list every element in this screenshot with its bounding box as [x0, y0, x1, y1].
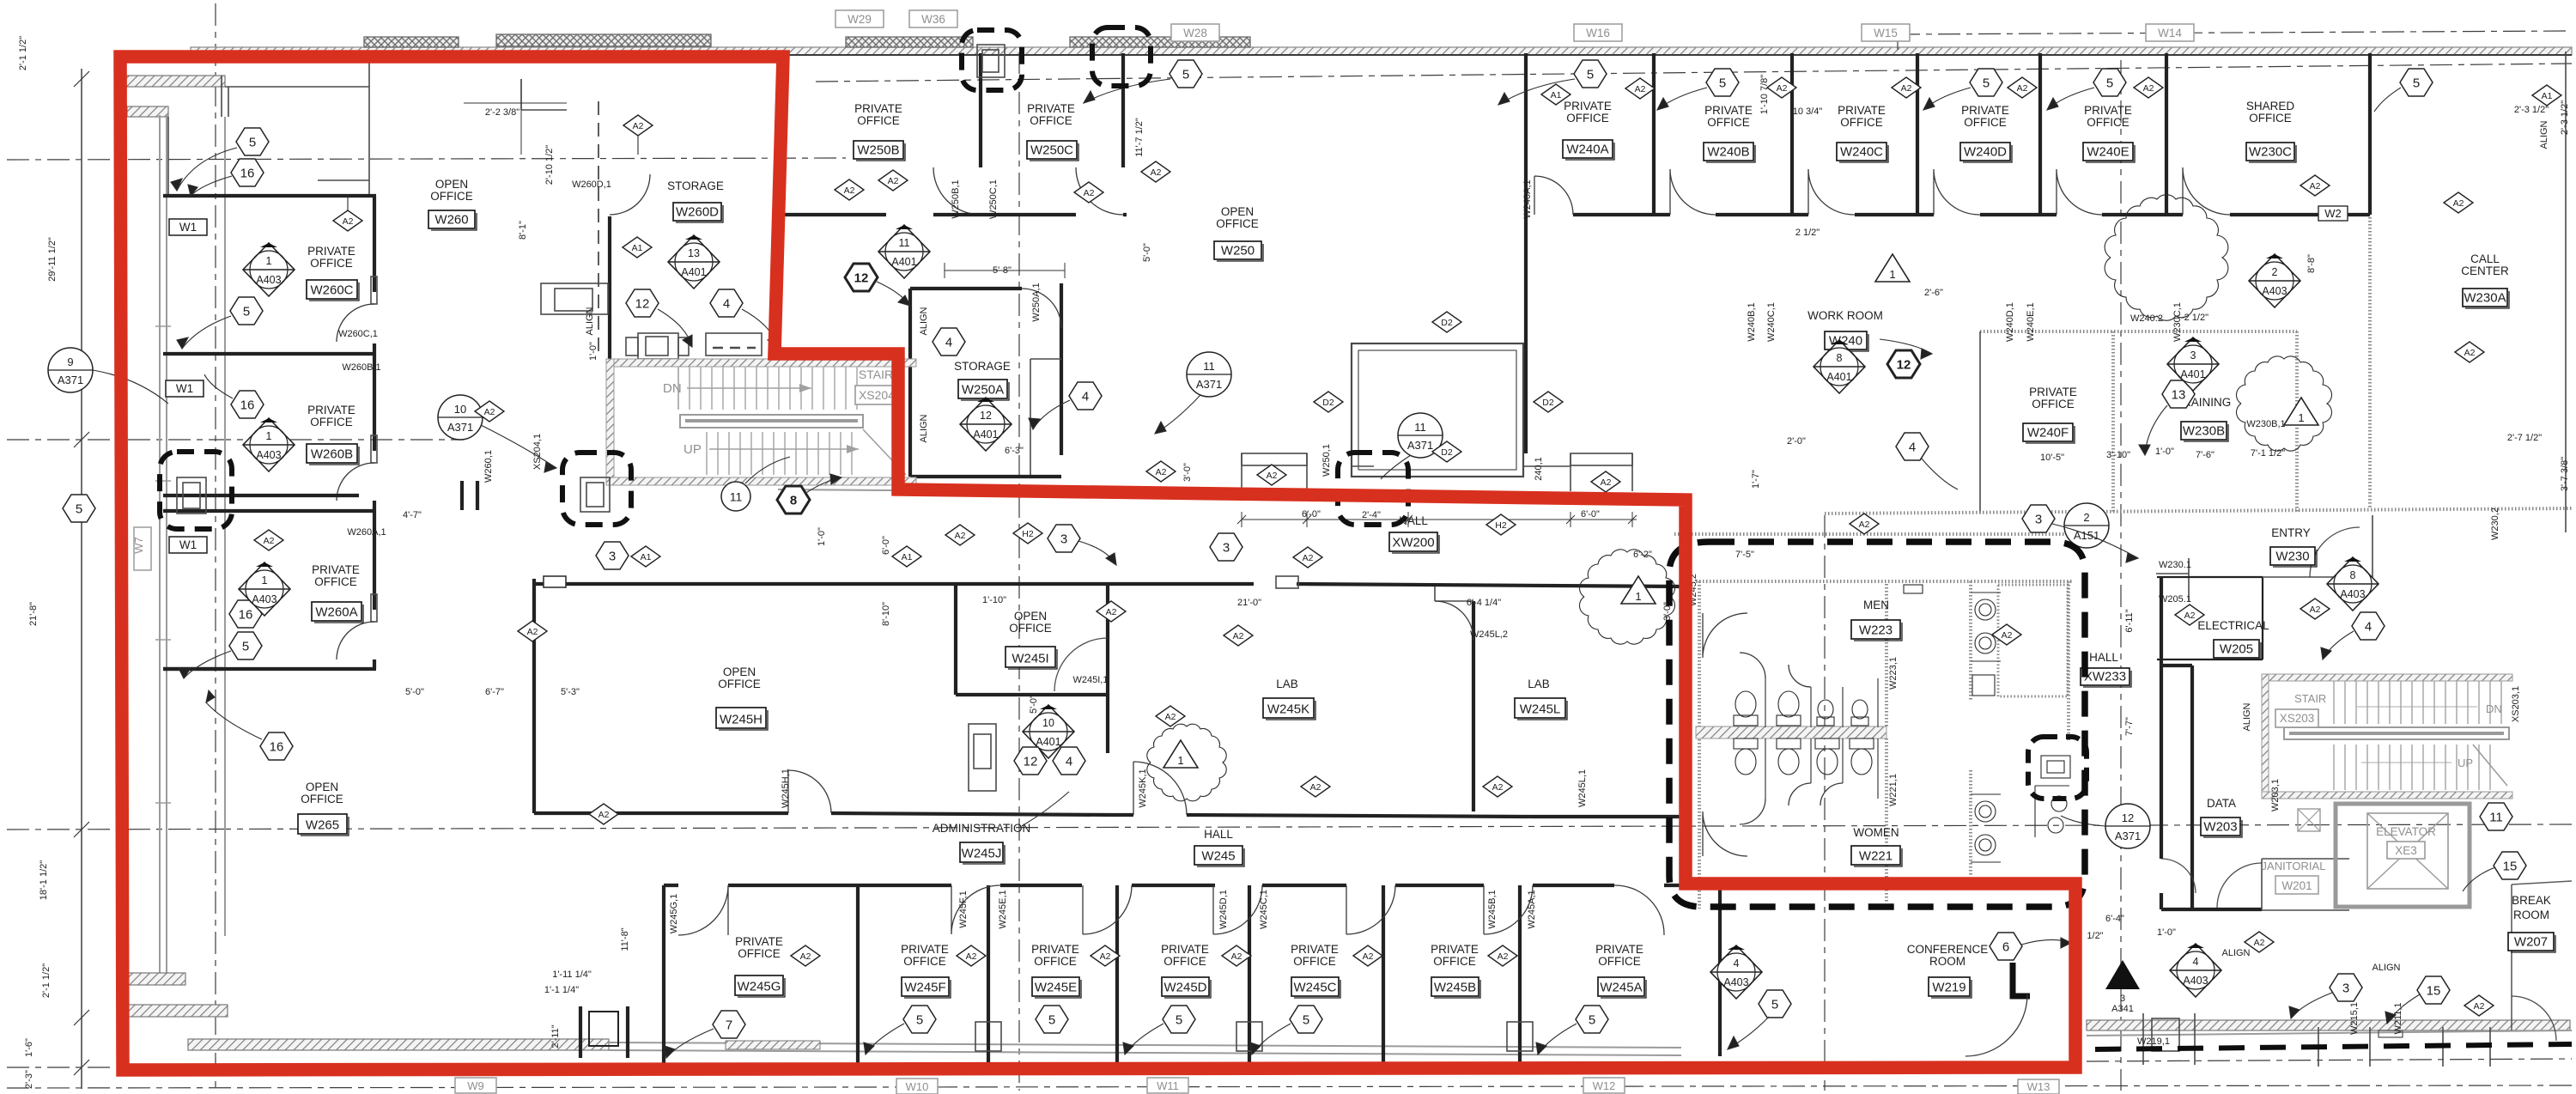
svg-text:W250,1: W250,1	[1321, 444, 1332, 477]
data room west wall	[2161, 666, 2262, 909]
svg-text:W16: W16	[1586, 27, 1610, 40]
leader from hex5 b	[182, 316, 231, 349]
bottom-left stepped wall 3	[188, 1039, 609, 1050]
svg-text:A401: A401	[1036, 736, 1060, 748]
svg-text:PRIVATE: PRIVATE	[312, 563, 360, 576]
svg-text:11'-7 1/2": 11'-7 1/2"	[1134, 118, 1145, 157]
door arcs W240 row	[1534, 176, 1573, 215]
leader hex3 bottom right	[2291, 993, 2332, 1018]
W240A/B divider	[1652, 53, 1656, 215]
hexagon callout 3	[1048, 525, 1080, 552]
svg-text:2'-3": 2'-3"	[24, 1070, 34, 1089]
svg-text:W250B: W250B	[857, 143, 899, 158]
svg-text:OFFICE: OFFICE	[903, 955, 946, 968]
grid box W14	[2146, 24, 2194, 41]
svg-text:W240E,1: W240E,1	[2026, 302, 2036, 341]
svg-text:A2: A2	[1901, 83, 1912, 94]
svg-text:A2: A2	[484, 407, 495, 417]
filled triangle 3/A341	[2105, 960, 2140, 1014]
svg-text:PRIVATE: PRIVATE	[2029, 386, 2077, 398]
hexagon callout 5	[1170, 60, 1202, 88]
svg-text:W250C: W250C	[1030, 143, 1073, 158]
bottom right door jambs	[2143, 1013, 2490, 1067]
svg-text:A2: A2	[955, 531, 966, 541]
svg-text:OFFICE: OFFICE	[738, 947, 781, 960]
tag diamond A1	[2532, 85, 2561, 106]
svg-text:W245K: W245K	[1267, 702, 1309, 717]
svg-text:W245G: W245G	[738, 980, 781, 994]
left margin dimension line	[81, 69, 82, 1089]
tag diamond A2	[333, 210, 362, 231]
svg-text:7'-5": 7'-5"	[1735, 550, 1754, 560]
door inside stair dashed box	[580, 477, 610, 512]
svg-text:A2: A2	[1267, 471, 1278, 481]
bottom-left stepped wall 2	[127, 1005, 228, 1017]
wall shaft to W240.1	[1523, 465, 1571, 467]
leader hex4 workroom	[1921, 458, 1958, 489]
room label W245F	[901, 943, 951, 998]
grid line bottom margin dashes	[7, 1085, 2572, 1088]
svg-text:W36: W36	[921, 13, 945, 26]
svg-text:16: 16	[270, 740, 284, 755]
womens counter	[1971, 794, 2001, 862]
svg-text:A2: A2	[1635, 84, 1646, 94]
leader hex5 W240E	[2047, 88, 2094, 110]
svg-text:SHARED: SHARED	[2246, 100, 2295, 112]
door arc W260D.1	[610, 174, 650, 215]
dashed box left	[160, 452, 232, 529]
svg-text:OFFICE: OFFICE	[1964, 116, 2007, 129]
room label W223	[1851, 599, 1902, 641]
leader hex6 conference	[2021, 939, 2071, 945]
svg-text:OPEN: OPEN	[306, 781, 338, 793]
svg-text:W7: W7	[132, 537, 145, 554]
svg-text:W203: W203	[2203, 820, 2237, 835]
drinking fountain rects at notch	[2041, 756, 2070, 778]
right margin dimension line	[2565, 52, 2567, 532]
svg-text:PRIVATE: PRIVATE	[1027, 102, 1075, 115]
copier rect 2 near stair	[626, 333, 689, 359]
svg-text:OFFICE: OFFICE	[310, 257, 353, 270]
W240B/C divider	[1790, 53, 1794, 215]
svg-text:5'-0": 5'-0"	[1142, 243, 1152, 262]
svg-text:4: 4	[1734, 957, 1740, 969]
svg-text:11'-8": 11'-8"	[620, 927, 630, 951]
tag diamond A2	[1353, 945, 1382, 966]
lab W245K door arc	[1133, 762, 1187, 815]
svg-text:W250B,1: W250B,1	[951, 179, 961, 218]
grid box W9	[455, 1078, 496, 1093]
circle callout 11/	[721, 482, 750, 511]
admin W245J west wall	[954, 584, 957, 695]
svg-text:PRIVATE: PRIVATE	[307, 404, 355, 416]
dashed box corridor W250.1	[1338, 453, 1408, 525]
hexagon callout 5	[1163, 1006, 1195, 1033]
svg-text:12: 12	[1024, 755, 1038, 769]
svg-text:W245H,1: W245H,1	[781, 769, 791, 808]
leader hex15 a	[2463, 867, 2495, 891]
svg-text:ELECTRICAL: ELECTRICAL	[2197, 619, 2269, 632]
leader hex7	[666, 1029, 714, 1058]
svg-text:4'-7": 4'-7"	[403, 510, 422, 520]
admin / W245I divider	[956, 693, 1108, 696]
svg-text:W215,1: W215,1	[2349, 1002, 2360, 1035]
svg-text:UP: UP	[2458, 757, 2473, 769]
room label W245G	[735, 935, 785, 997]
grid line horizontal top	[7, 158, 846, 160]
hexagon callout 5	[2093, 69, 2126, 96]
womens basin 1	[1975, 801, 1996, 822]
svg-text:D2: D2	[1542, 398, 1554, 408]
svg-text:A2: A2	[2002, 630, 2013, 641]
svg-text:PRIVATE: PRIVATE	[1161, 943, 1209, 956]
womens entry door arc	[1703, 811, 1747, 856]
tag diamond A1	[1541, 84, 1571, 105]
tag diamond A2	[1625, 78, 1655, 99]
leader hex5 W240A	[1498, 79, 1575, 105]
circle callout 11/A371	[1187, 352, 1231, 397]
leader circle 11/A371	[1155, 395, 1200, 434]
svg-text:5'-0": 5'-0"	[1029, 695, 1039, 714]
svg-text:W260,1: W260,1	[483, 450, 494, 483]
svg-text:W240A,1: W240A,1	[1522, 179, 1533, 218]
svg-text:W205.1: W205.1	[2159, 594, 2191, 605]
room label W245J	[933, 822, 1031, 864]
svg-text:ADMINISTRATION: ADMINISTRATION	[933, 822, 1031, 835]
svg-text:A403: A403	[2340, 588, 2365, 600]
left office column right wall	[373, 196, 376, 669]
toilet W2	[1777, 738, 1801, 775]
urinal M1	[1817, 700, 1834, 726]
mens shower room	[1998, 585, 2068, 696]
entry north wall	[2263, 515, 2372, 580]
room label W240C	[1837, 104, 1888, 162]
door mullion marks bottom row	[975, 1022, 1533, 1051]
svg-text:4: 4	[2365, 620, 2372, 635]
mens lav counter	[1971, 593, 2001, 661]
svg-text:STORAGE: STORAGE	[954, 360, 1011, 373]
svg-text:OFFICE: OFFICE	[2087, 116, 2129, 129]
W245G left wall	[662, 885, 665, 1065]
svg-text:A403: A403	[2183, 975, 2208, 987]
W250C right wall	[1121, 53, 1125, 167]
svg-text:2'-0": 2'-0"	[1787, 436, 1806, 447]
room label W240A	[1563, 100, 1614, 160]
svg-text:HALL: HALL	[1204, 828, 1233, 841]
svg-text:3'-0": 3'-0"	[1182, 463, 1193, 482]
svg-text:1/2": 1/2"	[2087, 931, 2103, 941]
svg-text:W219,1: W219,1	[2137, 1036, 2170, 1047]
grid line vertical C	[1824, 515, 1826, 1091]
hexagon callout 13	[2162, 380, 2195, 408]
restroom outer wall right	[2067, 581, 2070, 740]
svg-text:4: 4	[1909, 441, 1916, 455]
tag diamond D2	[1432, 441, 1461, 462]
svg-text:5: 5	[1587, 68, 1594, 82]
svg-text:W245J: W245J	[962, 847, 1002, 861]
svg-text:1: 1	[1635, 590, 1641, 603]
svg-text:11: 11	[1414, 421, 1426, 434]
svg-text:A2: A2	[2464, 348, 2476, 358]
svg-text:W2: W2	[2324, 207, 2342, 220]
hexagon callout 12	[1887, 350, 1920, 378]
svg-text:A2: A2	[1492, 782, 1504, 793]
svg-text:BREAK: BREAK	[2512, 894, 2551, 907]
hexagon callout 5	[1574, 60, 1607, 88]
svg-text:MEN: MEN	[1863, 599, 1889, 611]
door recess W250.1	[1242, 453, 1307, 489]
wall left of W265 bottom portion	[163, 494, 359, 497]
heavy dashed line bottom right	[2095, 1044, 2572, 1049]
XS204 box	[855, 386, 898, 404]
grid line vertical B	[1018, 52, 1020, 1091]
room label XW200	[1389, 514, 1439, 553]
svg-text:A341: A341	[2111, 1004, 2134, 1014]
mens basin 2	[1975, 633, 1996, 653]
W240C/D divider	[1916, 53, 1919, 215]
svg-text:D2: D2	[1441, 318, 1453, 328]
svg-text:W240C: W240C	[1840, 145, 1883, 160]
svg-text:OFFICE: OFFICE	[1840, 116, 1883, 129]
treads upper	[2334, 681, 2501, 724]
room label W221	[1851, 826, 1902, 866]
svg-text:6'-0": 6'-0"	[1581, 509, 1600, 520]
svg-text:ROOM: ROOM	[2513, 909, 2549, 921]
svg-text:1'-0": 1'-0"	[2155, 447, 2174, 457]
storage W250A bottom wall	[910, 475, 1061, 478]
hall/entry west wall	[2160, 577, 2163, 909]
svg-text:D2: D2	[1441, 447, 1453, 458]
wall W260C/W260B divider	[163, 352, 376, 356]
keynote diamond 3/A401	[2167, 337, 2219, 391]
tag diamond A2	[623, 115, 653, 136]
svg-text:A371: A371	[1407, 439, 1433, 452]
leader hex5 W240D	[1923, 88, 1971, 110]
svg-text:W230A: W230A	[2464, 291, 2506, 306]
bottom exterior wall center	[609, 1042, 1681, 1048]
room label W250	[1214, 205, 1263, 261]
keynote diamond 2/A403	[2249, 254, 2300, 307]
tag diamond A2	[2300, 175, 2330, 196]
tag diamond A2	[2245, 932, 2274, 952]
hexagon callout 3	[2022, 505, 2055, 532]
svg-text:W230: W230	[2275, 550, 2309, 564]
leader circle 11 stair	[745, 457, 790, 483]
svg-text:6: 6	[2002, 940, 2009, 955]
svg-text:6'-0": 6'-0"	[1302, 509, 1321, 520]
svg-text:A1: A1	[1551, 90, 1562, 100]
svg-text:OFFICE: OFFICE	[301, 793, 343, 805]
svg-text:10'-5": 10'-5"	[2040, 453, 2064, 463]
door arc W250C.1	[1076, 167, 1123, 215]
grid box W11	[1147, 1078, 1188, 1093]
room label W240F	[2023, 386, 2077, 443]
svg-text:A2: A2	[1165, 712, 1176, 722]
svg-text:W245C: W245C	[1293, 981, 1336, 995]
electrical W205 room	[2157, 577, 2263, 659]
svg-text:21'-8": 21'-8"	[28, 602, 39, 626]
svg-text:3: 3	[2342, 982, 2349, 996]
room label W250A	[954, 360, 1011, 400]
leader A2 arrows top left	[347, 196, 349, 210]
restroom outer wall left	[1698, 581, 1701, 909]
svg-text:A2: A2	[527, 627, 538, 637]
svg-text:W12: W12	[1593, 1079, 1616, 1092]
stair break	[2473, 745, 2507, 786]
door arc W260A	[371, 594, 377, 622]
svg-text:5: 5	[1303, 1013, 1309, 1028]
svg-text:6'-3": 6'-3"	[1005, 446, 1024, 456]
toilet M1	[1734, 691, 1758, 726]
wall tag W1 a	[169, 219, 207, 235]
svg-text:8: 8	[790, 494, 797, 508]
svg-text:A2: A2	[800, 951, 811, 962]
W245I east wall	[1106, 584, 1109, 753]
svg-text:W260C,1: W260C,1	[338, 329, 378, 339]
svg-text:W221,1: W221,1	[1888, 774, 1899, 806]
svg-text:W260: W260	[434, 213, 468, 228]
room label W245L	[1515, 678, 1567, 720]
svg-text:A2: A2	[1100, 951, 1111, 962]
hexagon callout 4 admin	[1053, 747, 1085, 775]
svg-text:8'-8": 8'-8"	[2306, 254, 2317, 273]
leader hex12 workroom	[1880, 339, 1932, 354]
svg-text:A2: A2	[1231, 951, 1242, 962]
svg-text:A2: A2	[1084, 188, 1095, 198]
work room W240F dotted top	[1980, 330, 2297, 333]
break room door arc	[2512, 996, 2556, 1041]
svg-text:15: 15	[2503, 860, 2518, 874]
svg-text:2: 2	[2083, 511, 2089, 524]
hexagon callout 4	[710, 289, 743, 317]
svg-text:CENTER: CENTER	[2461, 264, 2509, 277]
svg-text:W223,1: W223,1	[1888, 657, 1899, 690]
keynote diamond 11/A401	[878, 225, 930, 278]
tag diamond A1	[623, 237, 652, 258]
ALIGN texts	[585, 120, 2549, 973]
top-left notch wall return	[127, 106, 168, 117]
wall shaft to corridor left stub	[1352, 465, 1374, 467]
svg-text:W245B,1: W245B,1	[1487, 890, 1498, 928]
svg-text:ALIGN: ALIGN	[2539, 120, 2549, 149]
tag diamond D2	[1534, 392, 1563, 412]
door arc W260B	[371, 435, 377, 463]
svg-text:W201: W201	[2281, 879, 2312, 892]
svg-text:W245F: W245F	[904, 981, 945, 995]
svg-text:A2: A2	[1310, 782, 1321, 793]
entry door arc	[2310, 527, 2360, 577]
tag diamond A2	[2300, 599, 2330, 619]
tag diamond A2	[1156, 706, 1185, 726]
storage W250A right wall	[1060, 283, 1063, 455]
tag diamond A2	[1074, 182, 1103, 203]
svg-text:W230C: W230C	[2249, 145, 2292, 160]
restroom chase wall men	[1885, 584, 1888, 726]
top window box 3	[846, 37, 973, 47]
svg-text:DATA: DATA	[2207, 797, 2236, 810]
svg-text:A403: A403	[2262, 285, 2287, 297]
corridor dotted wall north of restrooms	[1674, 532, 2087, 536]
svg-text:240,1: 240,1	[1534, 457, 1544, 481]
svg-text:W245I: W245I	[1012, 652, 1048, 666]
hexagon callout 5	[2400, 69, 2433, 96]
room label W240E	[2083, 104, 2135, 162]
leader hex4 entry	[2323, 631, 2354, 659]
corridor XW200 south wall	[534, 584, 1681, 587]
hexagon callout 4	[2352, 612, 2385, 640]
womens basin 2	[1975, 835, 1996, 855]
svg-text:A2: A2	[2184, 611, 2196, 621]
tag diamond A2	[2464, 995, 2494, 1016]
svg-text:5: 5	[2106, 76, 2113, 91]
storage W260D top jog	[521, 79, 567, 110]
dashed box restroom notch	[2028, 737, 2087, 799]
svg-text:W250A,1: W250A,1	[1031, 283, 1042, 321]
svg-text:3: 3	[2035, 513, 2042, 527]
svg-text:5: 5	[1771, 998, 1778, 1012]
stair landing line upper	[677, 367, 679, 410]
W245I door arc	[1054, 638, 1108, 691]
tag diamond A2	[791, 945, 820, 966]
grid line vertical A	[215, 3, 216, 1091]
svg-text:W245C,1: W245C,1	[1259, 890, 1269, 929]
svg-text:W240B,1: W240B,1	[1747, 302, 1757, 341]
svg-text:A2: A2	[598, 810, 610, 820]
svg-text:A2: A2	[1156, 467, 1167, 477]
svg-text:W1: W1	[179, 221, 197, 234]
svg-text:2'-3 1/2": 2'-3 1/2"	[2560, 100, 2570, 135]
tag diamond H2	[1486, 514, 1516, 535]
stair XS203 enclosure top	[2262, 674, 2512, 681]
tag diamond A2	[1224, 625, 1253, 646]
svg-text:7: 7	[726, 1018, 732, 1033]
svg-text:OFFICE: OFFICE	[1163, 955, 1206, 968]
svg-text:UP: UP	[683, 442, 702, 457]
tag diamond A2	[2008, 77, 2037, 98]
svg-text:A2: A2	[2310, 181, 2321, 191]
svg-text:W223: W223	[1859, 623, 1893, 638]
wall W260A bottom	[163, 667, 376, 671]
room label XW233	[2081, 651, 2131, 687]
hexagon callout 6	[1990, 933, 2022, 960]
training W230B right dotted	[2295, 331, 2299, 514]
svg-text:8'-10": 8'-10"	[881, 602, 891, 626]
svg-text:4: 4	[945, 336, 952, 350]
W245C/B divider	[1382, 885, 1385, 1065]
elevator X	[2367, 813, 2448, 889]
svg-text:1: 1	[1177, 754, 1183, 767]
storage W250A left wall	[908, 289, 912, 477]
hexagon callout 3	[2330, 974, 2362, 1001]
womens vanity wall	[1969, 770, 1972, 876]
svg-text:ALIGN: ALIGN	[919, 414, 929, 442]
svg-text:W260A: W260A	[315, 605, 357, 620]
svg-text:W240B: W240B	[1707, 145, 1749, 160]
tag diamond A2	[2455, 342, 2484, 362]
leader from hex16 c	[206, 702, 262, 739]
svg-text:W245L,2: W245L,2	[1470, 629, 1508, 640]
svg-text:W245A: W245A	[1600, 981, 1642, 995]
room label W260B	[307, 404, 359, 465]
break room west wall	[2512, 881, 2572, 1030]
room label W250C	[1027, 102, 1078, 161]
room label W245I	[1005, 610, 1057, 669]
hexagon callout 16	[231, 391, 264, 418]
svg-text:OPEN: OPEN	[435, 178, 468, 191]
svg-text:ELEVATOR: ELEVATOR	[2376, 825, 2436, 838]
grid line horizontal mid-left	[7, 439, 464, 441]
svg-text:W230.1: W230.1	[2159, 560, 2191, 570]
